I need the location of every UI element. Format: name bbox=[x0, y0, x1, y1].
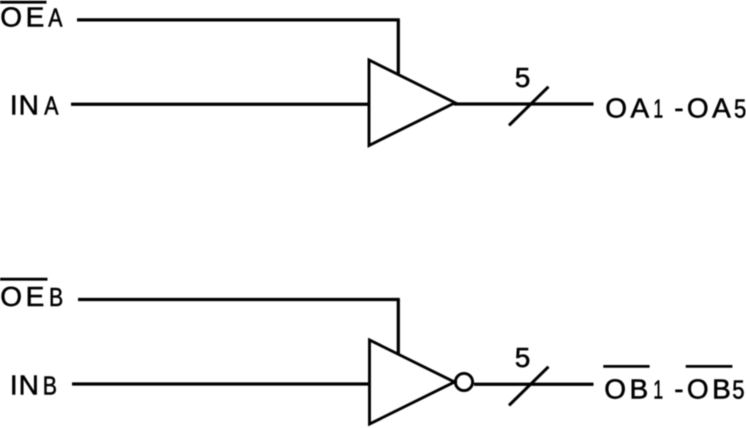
svg-text:5: 5 bbox=[732, 376, 744, 405]
svg-text:B: B bbox=[43, 372, 57, 402]
svg-text:OE: OE bbox=[0, 281, 48, 312]
svg-text:OB: OB bbox=[604, 374, 651, 405]
net OB1 label overline bbox=[603, 365, 649, 368]
net OEA label overline bbox=[0, 1, 47, 4]
svg-text:OE: OE bbox=[0, 2, 48, 33]
wire INB bbox=[72, 382, 370, 385]
svg-text:5: 5 bbox=[515, 342, 531, 373]
bus slash A bbox=[509, 87, 549, 126]
net OEB label overline bbox=[0, 278, 48, 281]
buffer U1 (non-inverting) bbox=[369, 60, 455, 146]
svg-text:IN: IN bbox=[10, 89, 40, 120]
svg-text:IN: IN bbox=[10, 370, 40, 401]
wire INA bbox=[71, 103, 370, 106]
wire OA output bbox=[454, 102, 594, 105]
wire OEB vertical bbox=[397, 300, 400, 354]
svg-text:5: 5 bbox=[515, 62, 531, 93]
wire OEB horizontal bbox=[78, 298, 400, 301]
svg-text:-OA: -OA bbox=[674, 92, 734, 123]
svg-text:A: A bbox=[44, 91, 58, 121]
svg-text:B: B bbox=[49, 283, 63, 313]
svg-text:-OB: -OB bbox=[674, 374, 734, 405]
wire OB output bbox=[474, 383, 594, 386]
svg-text:1: 1 bbox=[653, 94, 663, 123]
svg-text:5: 5 bbox=[734, 95, 746, 124]
svg-text:OA: OA bbox=[605, 92, 652, 123]
svg-text:1: 1 bbox=[653, 375, 663, 404]
svg-text:A: A bbox=[48, 4, 62, 34]
inverter U2 triangle bbox=[370, 340, 455, 424]
inverter U2 output bubble bbox=[455, 373, 472, 390]
bus slash B bbox=[509, 367, 549, 406]
wire OEA vertical bbox=[397, 20, 400, 74]
net OB5 label overline bbox=[686, 365, 733, 368]
wire OEA horizontal bbox=[77, 18, 400, 21]
